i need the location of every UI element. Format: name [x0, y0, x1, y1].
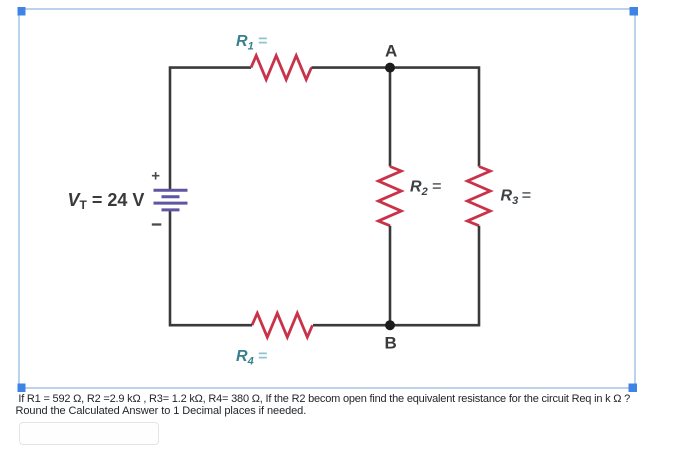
battery VT plate 2 (short) [162, 195, 180, 198]
selection handle top-left [18, 7, 26, 16]
svg-text:VT = 24 V: VT = 24 V [68, 190, 145, 212]
battery VT plate 1 (long) [154, 189, 188, 192]
node B [385, 320, 395, 330]
wire: bottom wire from R4 to bottom-left corner, up to battery bottom [170, 210, 252, 325]
selection frame [19, 9, 635, 388]
svg-text:R1 =: R1 = [236, 33, 267, 53]
selection handle bottom-right [629, 384, 638, 393]
resistor R4 [252, 313, 313, 337]
resistor R2 [378, 167, 401, 226]
battery minus terminal sign [152, 223, 162, 225]
wire: right vertical below R3 and bottom wire to R4 [313, 226, 479, 326]
svg-text:+: + [151, 168, 160, 185]
wire: left vertical (battery top to top-left corner) and top wire to R1 [170, 68, 251, 190]
svg-text:B: B [385, 334, 397, 353]
resistor R1 [251, 56, 311, 80]
battery VT plate 3 (long) [154, 202, 188, 205]
svg-text:R2 =: R2 = [410, 178, 441, 198]
svg-text:A: A [385, 42, 397, 61]
wire: middle branch top (node A to R2) [389, 68, 392, 167]
answer input box [19, 422, 159, 445]
svg-text:R3=: R3= [501, 188, 532, 208]
resistor R3 [467, 167, 490, 226]
battery VT plate 4 (short) [162, 208, 180, 211]
svg-text:R4 =: R4 = [236, 348, 267, 368]
question text [16, 394, 696, 417]
node A [385, 63, 395, 73]
wire: middle branch bottom (R2 to node B) [389, 226, 392, 326]
selection handle top-right [630, 7, 639, 16]
wire: top wire from R1 to top-right corner, down to R3 [311, 68, 479, 167]
selection handle bottom-left [18, 384, 26, 393]
